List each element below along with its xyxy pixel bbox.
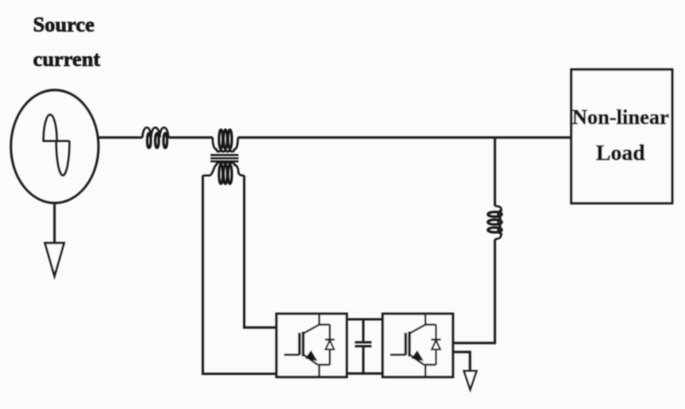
wire: main line L1 to transformer	[168, 136, 212, 138]
Q2 collector diagonal	[409, 325, 425, 334]
svg-text:Source: Source	[33, 13, 94, 37]
ground arrow (converter output)	[464, 371, 477, 390]
wire: secondary right lead to converter 1 upper input	[244, 176, 276, 328]
ground arrow (source)	[45, 243, 64, 276]
capacitor C1 bottom lead	[362, 347, 364, 373]
capacitor C1 plates	[355, 342, 372, 346]
capacitor C1 top lead	[362, 319, 364, 341]
inductor L1 (series source inductor)	[143, 128, 169, 148]
Q1 gate bar	[298, 333, 301, 355]
wire: main line source to L1	[99, 136, 143, 138]
wire: converter 2 to ground	[454, 352, 470, 371]
inductor L2 (filter, vertical)	[488, 206, 502, 239]
wire: DC bus top between converters	[347, 318, 383, 320]
transformer T1 primary winding	[213, 130, 238, 152]
Q2 gate lead	[390, 354, 406, 356]
wire: source bottom lead	[53, 203, 55, 243]
D1 triangle	[326, 340, 334, 349]
Q2 collector stub	[425, 314, 436, 325]
D2 triangle	[432, 340, 440, 349]
D2 vertical branch	[435, 325, 437, 365]
label: Source current	[33, 13, 100, 72]
svg-text:Load: Load	[596, 140, 645, 165]
Q2 emitter bottom stub	[424, 365, 436, 377]
D1 vertical branch	[329, 325, 331, 365]
converter box U1	[277, 314, 347, 377]
label: Non-linear Load	[572, 105, 669, 165]
IGBT Q1 with antiparallel diode D1	[284, 314, 335, 377]
svg-text:Non-linear: Non-linear	[572, 105, 669, 129]
transformer T1 secondary winding	[203, 163, 244, 184]
Q2 body bar	[408, 332, 411, 357]
wire: DC bus bottom between converters	[347, 372, 383, 374]
svg-text:current: current	[33, 47, 100, 71]
wire: main line junction down to filter inductor	[494, 138, 496, 207]
transformer T1 core	[211, 155, 239, 161]
Q2 emitter arrow	[411, 350, 423, 361]
D2 cathode bar	[431, 339, 441, 341]
Q2 emitter diagonal	[409, 355, 424, 365]
Q1 body bar	[302, 332, 305, 357]
Q2 gate bar	[404, 333, 407, 355]
AC source VS	[11, 90, 99, 203]
Q1 emitter bottom stub	[318, 365, 330, 377]
Q1 emitter diagonal	[303, 355, 318, 365]
Q1 gate lead	[284, 354, 300, 356]
IGBT Q2 with antiparallel diode D2	[390, 314, 441, 377]
Q1 emitter arrow	[305, 350, 317, 361]
wire: secondary left lead to converter 1 lower input	[203, 176, 277, 374]
wire: main line transformer to load	[238, 136, 571, 138]
D1 cathode bar	[325, 339, 335, 341]
Q1 collector diagonal	[303, 325, 319, 334]
converter box U2	[383, 314, 453, 377]
wire: filter inductor to converter 2 right side	[454, 239, 495, 343]
Q1 collector stub	[319, 314, 330, 325]
non-linear load box	[571, 70, 672, 204]
